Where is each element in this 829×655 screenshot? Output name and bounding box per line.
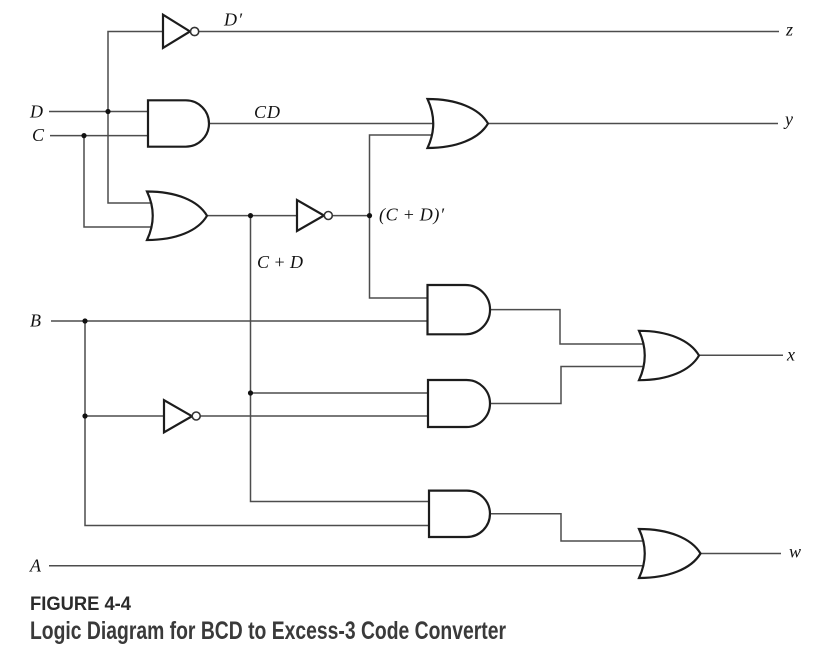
wire inverter U3 output B' to AND G6 bottom input xyxy=(200,415,430,417)
wire y output line from OR G5 xyxy=(488,123,778,125)
AND gate G4 (top, x term 1) xyxy=(428,285,491,334)
AND gate G6 (middle, x term 2) xyxy=(428,380,490,427)
wire C+D branch to AND G6 top input xyxy=(251,392,431,394)
svg-text:(C + D)′: (C + D)′ xyxy=(379,205,445,226)
OR gate G5 (y) xyxy=(428,99,489,148)
inverter U3 (B') xyxy=(164,400,200,432)
wire z output line from U1 bubble xyxy=(199,31,779,33)
svg-text:C: C xyxy=(32,125,45,145)
AND gate G7 (bottom, w term) xyxy=(429,491,490,537)
wire inverter U2 output to node (C+D)' xyxy=(332,215,370,217)
wire B branch to inverter U3 input xyxy=(85,415,164,417)
node junction B to inverter U3 xyxy=(82,413,87,418)
node junction on D line xyxy=(105,109,110,114)
wire AND G4 output to OR G8 top input xyxy=(490,310,650,344)
wire OR G2 output to inverter U2 xyxy=(206,215,298,217)
svg-text:z: z xyxy=(785,20,793,40)
node junction on B line xyxy=(82,318,87,323)
wire input B to AND G4 bottom input xyxy=(51,320,430,322)
wire AND G7 output to OR G9 top input xyxy=(490,514,650,541)
svg-text:D′: D′ xyxy=(223,10,243,30)
AND gate G1 (CD) xyxy=(148,100,209,146)
svg-text:w: w xyxy=(789,542,801,562)
inverter U1 (D') xyxy=(163,15,199,48)
svg-text:FIGURE 4-4: FIGURE 4-4 xyxy=(30,593,131,615)
svg-text:B: B xyxy=(30,311,41,331)
svg-text:Logic Diagram for BCD to Exces: Logic Diagram for BCD to Excess-3 Code C… xyxy=(30,617,506,645)
wire C+D vertical down to AND G7 top input xyxy=(251,216,433,502)
node junction C+D to AND G6 xyxy=(248,390,253,395)
wire input D xyxy=(49,111,150,113)
wire w output line from OR G9 xyxy=(700,553,781,555)
OR gate G9 (w) xyxy=(639,529,701,578)
inverter U2 ((C+D)') xyxy=(297,200,332,231)
node junction on C line xyxy=(81,133,86,138)
svg-text:x: x xyxy=(786,345,795,365)
svg-text:D: D xyxy=(29,102,43,122)
wire input C xyxy=(50,135,150,137)
OR gate G2 (C+D) xyxy=(147,192,207,241)
wire (C+D)' vertical: up to OR G5 input, down to AND G4 top input xyxy=(370,135,441,298)
wire B vertical branch down to AND G7 bottom input xyxy=(85,321,432,526)
wire input A to OR G9 bottom input xyxy=(49,565,650,567)
svg-text:C + D: C + D xyxy=(257,252,303,272)
wire C branch: down to OR G2 bottom input xyxy=(84,136,155,227)
OR gate G8 (x) xyxy=(639,331,699,380)
wire D branch: up to inverter U1 and down to OR G2 top input xyxy=(108,32,163,204)
wire CD from AND G1 to OR G5 xyxy=(209,123,440,125)
svg-text:CD: CD xyxy=(254,102,280,122)
node (C+D)' junction xyxy=(367,213,372,218)
svg-text:y: y xyxy=(783,109,793,129)
node C+D junction xyxy=(248,213,253,218)
wire x output line from OR G8 xyxy=(699,354,783,356)
wire AND G6 output to OR G8 bottom input xyxy=(490,367,650,404)
svg-text:A: A xyxy=(29,556,42,576)
